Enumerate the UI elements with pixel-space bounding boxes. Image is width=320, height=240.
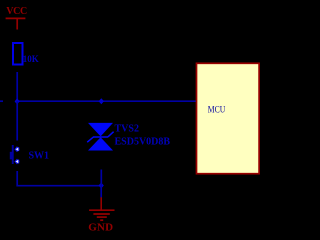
power symbol VCC: [6, 18, 26, 29]
resistor R1 10K: [13, 43, 23, 65]
svg-text:VCC: VCC: [6, 6, 27, 17]
wire TVS bottom pin to node C: [100, 170, 102, 186]
junction node B: [99, 98, 104, 104]
junction node C: [99, 183, 104, 189]
wire switch to bottom rail: [17, 171, 101, 186]
wire stub at left edge: [0, 100, 3, 102]
svg-text:SW1: SW1: [29, 151, 50, 162]
switch SW1: [10, 145, 20, 164]
svg-text:TVS2: TVS2: [115, 123, 139, 134]
junction node A: [15, 98, 20, 104]
wire node A to MCU: [17, 100, 196, 102]
wire resistor bottom to node A: [16, 72, 18, 101]
svg-text:GND: GND: [88, 221, 113, 233]
MCU block U1: [197, 63, 260, 173]
wire node A to switch: [16, 101, 18, 140]
svg-text:10K: 10K: [23, 54, 39, 64]
wire node C to ground: [100, 186, 102, 198]
svg-text:ESD5V0D8B: ESD5V0D8B: [115, 136, 171, 147]
svg-text:MCU: MCU: [208, 105, 225, 115]
TVS diode TVS2: [87, 123, 113, 151]
ground symbol: [89, 197, 114, 220]
